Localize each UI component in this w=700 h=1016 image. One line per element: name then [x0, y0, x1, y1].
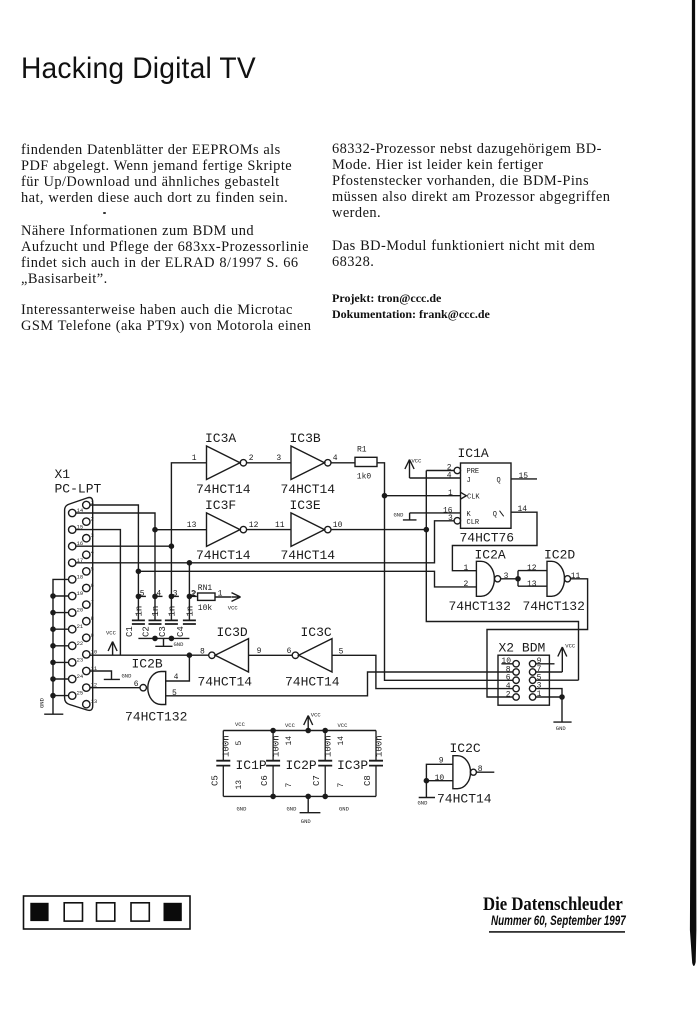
svg-text:GND: GND: [287, 806, 298, 813]
svg-text:CLK: CLK: [467, 494, 480, 502]
svg-text:3: 3: [276, 454, 281, 463]
ground symbol at LPT pin11: [90, 671, 132, 680]
page edge scan bar: [690, 0, 697, 966]
VCC arrow on y655 net: [106, 630, 117, 656]
svg-text:10k: 10k: [198, 604, 213, 613]
pin number ticks above capacitors: [136, 589, 197, 598]
capacitor C7: [312, 731, 333, 797]
wire IC2A out to IC2D inputs: [501, 571, 547, 587]
wire net y655 LPT pin10 to IC3D output: [90, 653, 209, 657]
connector X2 BDM body: [498, 655, 549, 705]
svg-text:74HCT14: 74HCT14: [437, 792, 492, 807]
X2 right pin numbers: [537, 657, 542, 699]
svg-text:7: 7: [91, 599, 94, 606]
RN1 pin 1 wire and VCC arrow: [215, 589, 241, 611]
svg-text:VCC: VCC: [106, 630, 117, 637]
svg-text:10: 10: [333, 521, 343, 530]
inverter IC3D: [198, 625, 262, 690]
svg-text:5: 5: [172, 689, 177, 698]
svg-text:X1: X1: [55, 467, 71, 482]
svg-text:VCC: VCC: [311, 712, 322, 719]
capacitor C5: [210, 731, 231, 797]
svg-text:GND: GND: [394, 512, 405, 519]
wire RN1 branch vertical: [188, 563, 190, 620]
svg-text:7: 7: [285, 783, 294, 788]
svg-text:100n: 100n: [222, 735, 232, 757]
svg-text:3: 3: [91, 532, 94, 539]
svg-text:1: 1: [448, 489, 453, 498]
svg-text:22: 22: [77, 640, 84, 647]
wire net LPT pin1 to C1: [90, 505, 138, 620]
power rails of IC1P IC2P IC3P: [223, 728, 376, 798]
svg-text:74HCT14: 74HCT14: [196, 482, 251, 497]
svg-text:IC2D: IC2D: [544, 548, 575, 563]
svg-text:2: 2: [464, 580, 469, 589]
connector X1 labels: [55, 467, 102, 497]
wire net LPT pin16 to C3 / IC3A input: [76, 463, 207, 620]
wire IC2B pin5 to X2 pin8: [166, 672, 513, 696]
VCC arrow on power rail: [304, 712, 322, 731]
svg-text:14: 14: [285, 736, 294, 746]
connector X2 left pin circles: [513, 661, 519, 701]
svg-text:GND: GND: [174, 641, 185, 648]
wire IC3C pin5 to X2 pin4: [332, 655, 513, 688]
svg-text:4: 4: [174, 673, 179, 682]
svg-text:74HCT76: 74HCT76: [460, 531, 515, 546]
svg-text:C2: C2: [141, 626, 151, 637]
svg-text:74HCT14: 74HCT14: [285, 675, 340, 690]
svg-text:1n: 1n: [186, 606, 196, 617]
svg-text:IC3D: IC3D: [217, 625, 248, 640]
left text column: [21, 142, 321, 352]
wire IC2B out pin6 to LPT pin12: [90, 687, 140, 689]
svg-text:74HCT132: 74HCT132: [523, 599, 585, 614]
svg-text:7: 7: [337, 783, 346, 788]
wire IC1A PRE stub: [426, 470, 454, 472]
svg-text:13: 13: [235, 780, 244, 790]
ground symbol at IC2C: [418, 798, 436, 807]
wire X2 pin3 to ground: [536, 689, 562, 697]
svg-text:GND: GND: [122, 673, 133, 680]
svg-text:C4: C4: [176, 626, 186, 637]
svg-text:IC3C: IC3C: [301, 625, 332, 640]
svg-text:2: 2: [192, 590, 197, 599]
svg-text:1n: 1n: [135, 606, 145, 617]
svg-text:VCC: VCC: [338, 722, 349, 729]
inverter IC3A: [192, 431, 254, 497]
inverter IC3F: [187, 498, 259, 563]
svg-text:4: 4: [447, 472, 452, 481]
svg-text:GND: GND: [339, 806, 350, 813]
footer brand: [483, 894, 623, 916]
IC1P label and pins: [235, 721, 267, 813]
svg-text:VCC: VCC: [228, 605, 239, 612]
svg-text:PC-LPT: PC-LPT: [55, 482, 102, 497]
inverter IC3C: [285, 625, 344, 690]
svg-text:10: 10: [435, 774, 445, 783]
svg-text:GND: GND: [237, 806, 248, 813]
inverter IC3B: [276, 431, 337, 497]
wire IC3D in from IC3C out: [249, 654, 293, 656]
svg-text:23: 23: [77, 656, 84, 663]
capacitor C8: [363, 731, 384, 797]
svg-text:18: 18: [77, 573, 84, 580]
nand gate IC2B: [125, 657, 187, 725]
svg-text:12: 12: [527, 564, 537, 573]
svg-text:3: 3: [504, 572, 509, 581]
right text column: [332, 141, 632, 288]
svg-text:74HCT14: 74HCT14: [198, 675, 253, 690]
footer underline: [489, 931, 625, 933]
wire IC1A Q pin15: [511, 478, 537, 480]
svg-text:1n: 1n: [168, 606, 178, 617]
svg-text:GND: GND: [39, 697, 46, 708]
wire X2 pin1 to ground: [536, 695, 564, 722]
svg-text:14: 14: [337, 736, 346, 746]
wire branch to IC2B pin4: [166, 655, 190, 681]
svg-text:10: 10: [91, 648, 98, 655]
svg-text:9: 9: [91, 632, 94, 639]
wire IC3E out to IC1A PRE and down to X2 pin5: [331, 471, 579, 681]
IC1A pin numbers: [443, 464, 528, 524]
svg-text:20: 20: [77, 607, 84, 614]
VCC arrow at IC1A J input: [405, 458, 461, 479]
svg-text:J: J: [467, 477, 471, 485]
svg-text:2: 2: [506, 690, 511, 699]
svg-text:1: 1: [464, 564, 469, 573]
svg-text:2: 2: [91, 516, 94, 523]
svg-text:74HCT132: 74HCT132: [449, 599, 511, 614]
ground symbol below X2: [553, 722, 571, 732]
svg-text:CLR: CLR: [467, 519, 480, 527]
capacitor C1: [125, 606, 145, 637]
svg-text:IC2B: IC2B: [132, 657, 163, 672]
svg-text:4: 4: [91, 549, 95, 556]
svg-text:IC3P: IC3P: [337, 758, 368, 773]
svg-text:VCC: VCC: [565, 643, 576, 650]
svg-text:GND: GND: [556, 725, 567, 732]
svg-text:GND: GND: [418, 800, 429, 807]
svg-text:R1: R1: [357, 446, 367, 455]
svg-text:5: 5: [91, 565, 94, 572]
svg-text:IC3B: IC3B: [290, 431, 321, 446]
resistor network RN1: [198, 584, 215, 613]
svg-text:6: 6: [287, 647, 292, 656]
wire net LPT pin15 down to y655: [76, 530, 121, 656]
wire long net LPT pin17 to IC1A CLR: [76, 521, 454, 565]
capacitor C4: [176, 606, 196, 637]
VCC arrow at X2 pin7: [536, 643, 576, 673]
nand gate IC2D: [523, 548, 585, 615]
ground symbol below power rail: [300, 796, 321, 825]
connector X1 right-column pin circles: [83, 501, 90, 708]
svg-text:74HCT14: 74HCT14: [281, 482, 336, 497]
svg-text:12: 12: [249, 521, 259, 530]
svg-text:6: 6: [91, 582, 94, 589]
svg-text:VCC: VCC: [235, 721, 246, 728]
svg-text:100n: 100n: [374, 735, 384, 757]
svg-text:IC3A: IC3A: [205, 431, 236, 446]
svg-text:13: 13: [527, 580, 537, 589]
svg-text:19: 19: [77, 590, 84, 597]
svg-text:IC3F: IC3F: [205, 498, 236, 513]
svg-text:25: 25: [77, 690, 84, 697]
wire IC1A Qbar pin14 to IC2A pin1: [452, 512, 537, 571]
connector X1 left-column pin circles: [69, 509, 76, 699]
svg-text:13: 13: [91, 698, 98, 705]
connector X1 tiny pin numbers: [77, 499, 98, 705]
svg-text:74HCT14: 74HCT14: [196, 548, 251, 563]
svg-text:C7: C7: [312, 775, 322, 786]
svg-text:1: 1: [537, 690, 542, 699]
svg-text:C6: C6: [260, 775, 270, 786]
svg-text:VCC: VCC: [285, 722, 296, 729]
wire X2 pin9 stub: [536, 663, 555, 665]
svg-text:11: 11: [275, 521, 285, 530]
inverter IC3E: [275, 498, 343, 563]
IC2P label and pins: [285, 722, 317, 813]
svg-text:C1: C1: [125, 626, 135, 637]
svg-text:1n: 1n: [151, 606, 161, 617]
svg-text:PRE: PRE: [467, 468, 480, 476]
svg-text:Q: Q: [497, 477, 501, 485]
svg-text:3: 3: [448, 514, 453, 523]
wire IC2C output pin8: [476, 771, 494, 773]
wire IC2C inputs to ground: [424, 764, 453, 797]
svg-text:21: 21: [77, 623, 84, 630]
svg-text:C5: C5: [210, 775, 220, 786]
svg-text:K: K: [467, 511, 472, 519]
svg-text:IC2A: IC2A: [475, 548, 506, 563]
svg-text:IC3E: IC3E: [290, 498, 321, 513]
nand gate IC2A: [449, 548, 511, 615]
wire net LPT pin14 to C2 / IC3F input: [76, 513, 207, 620]
wire long net C1 to IC2A pin2: [136, 569, 476, 587]
svg-text:8: 8: [200, 648, 205, 657]
svg-text:4: 4: [333, 454, 338, 463]
svg-text:IC1A: IC1A: [458, 446, 489, 461]
svg-text:11: 11: [571, 572, 581, 581]
svg-text:GND: GND: [301, 818, 312, 825]
wire IC2D out pin11 to X2 pin2: [487, 579, 588, 697]
RN1 pin 2 label: [192, 590, 197, 599]
resistor R1: [355, 446, 377, 482]
nand gate IC2C: [435, 741, 492, 807]
svg-text:RN1: RN1: [198, 584, 213, 593]
wire IC3F out to IC3E in: [247, 529, 291, 531]
svg-text:X2 BDM: X2 BDM: [499, 641, 546, 656]
svg-text:IC2P: IC2P: [286, 758, 317, 773]
X2 left pin numbers: [501, 657, 513, 699]
ground symbol below capacitor bank: [155, 638, 184, 648]
svg-text:100n: 100n: [271, 735, 281, 757]
capacitor C3: [158, 606, 178, 637]
connector X2 right pin circles: [529, 661, 535, 701]
capacitor C6: [260, 731, 281, 797]
svg-text:8: 8: [91, 615, 94, 622]
svg-text:IC2C: IC2C: [450, 741, 481, 756]
wire IC3A out to IC3B in: [247, 462, 291, 464]
svg-text:C3: C3: [158, 626, 168, 637]
svg-text:VCC: VCC: [412, 458, 423, 465]
X1 ground bus wire: [51, 579, 69, 713]
svg-text:IC1P: IC1P: [236, 758, 267, 773]
svg-text:13: 13: [187, 521, 197, 530]
svg-text:C8: C8: [363, 775, 373, 786]
svg-text:100n: 100n: [324, 735, 334, 757]
connector X2 BDM label: [499, 641, 546, 656]
wire R1 to IC1A CLK and long vertical to X2 pin6: [377, 463, 513, 681]
svg-text:24: 24: [77, 673, 84, 680]
capacitor C2: [141, 606, 161, 637]
page title: [21, 52, 256, 86]
svg-text:Q: Q: [493, 511, 497, 519]
ground symbol at IC1A K input: [394, 512, 461, 520]
ground symbol at X1 bus: [39, 697, 64, 714]
svg-text:74HCT14: 74HCT14: [281, 548, 336, 563]
flip-flop IC1A 74HCT76: [454, 446, 514, 546]
connector X1 PC-LPT body: [65, 498, 93, 711]
svg-text:1k0: 1k0: [357, 473, 372, 482]
svg-text:5: 5: [235, 741, 244, 746]
wire IC3B out to R1: [331, 462, 355, 464]
registration strip: [24, 896, 191, 929]
capacitor bank ground rail: [138, 636, 189, 640]
svg-text:2: 2: [249, 454, 254, 463]
IC3P label and pins: [337, 722, 368, 813]
svg-text:1: 1: [192, 454, 197, 463]
svg-text:74HCT132: 74HCT132: [125, 710, 187, 725]
